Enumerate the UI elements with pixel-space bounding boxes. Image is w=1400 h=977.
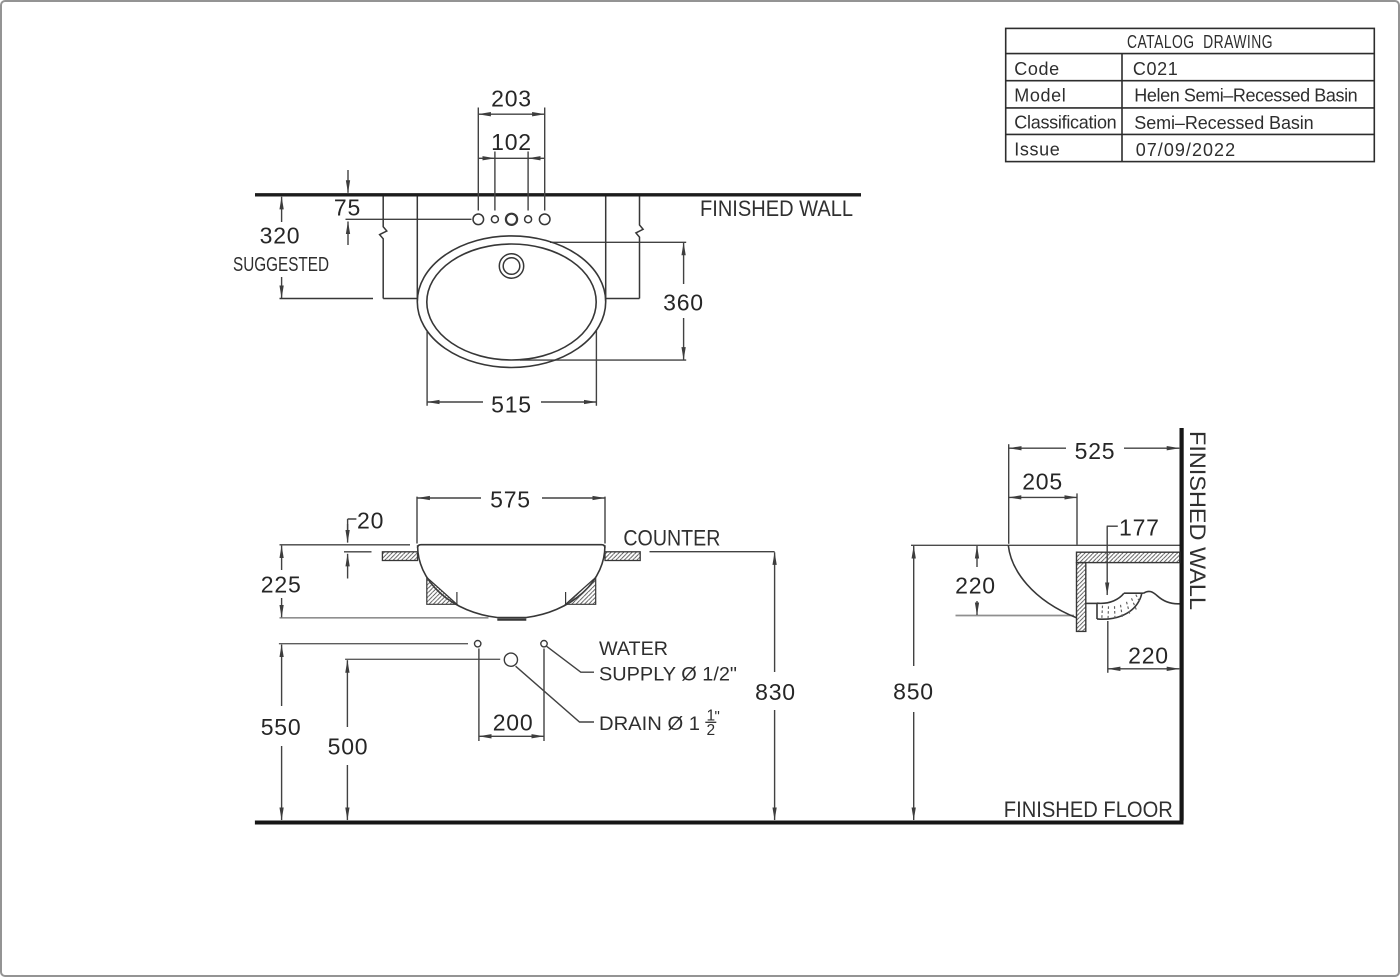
faucet hole 5 — [539, 214, 550, 225]
faucet holes reference line — [346, 218, 472, 220]
basin rim top line (front) — [418, 545, 605, 548]
svg-text:COUNTER: COUNTER — [623, 526, 720, 551]
overflow/faucet boss outer circle (plan) — [499, 254, 523, 278]
basin opening edge left (plan) — [416, 196, 418, 301]
svg-text:FINISHED WALL: FINISHED WALL — [1185, 431, 1210, 610]
svg-text:WATER: WATER — [599, 639, 668, 660]
drain boss under bowl (front) — [497, 618, 526, 620]
dim 200 line — [479, 735, 544, 737]
dim 220 bottom extension line — [1107, 621, 1109, 673]
svg-text:220: 220 — [955, 573, 996, 599]
reference line under bowl (front, grey) — [280, 617, 489, 619]
title block column line — [1121, 54, 1123, 162]
fixing clamp left (front) — [427, 578, 457, 605]
basin rim reference line (side) — [911, 544, 1180, 546]
dim 203 extension lines — [478, 108, 544, 211]
svg-text:575: 575 — [490, 487, 531, 513]
svg-text:Model: Model — [1014, 86, 1066, 106]
dim 500 line — [346, 660, 348, 820]
faucet hole 1 — [473, 214, 484, 225]
overflow/faucet boss inner circle (plan) — [503, 258, 520, 275]
finished wall line (side) — [1179, 428, 1183, 821]
dim 102 line (outside arrows) — [479, 157, 544, 159]
dim 220 left line — [976, 546, 978, 615]
drain hole (front) — [504, 653, 517, 666]
counter hatched strip left (front) — [382, 552, 417, 561]
dim 360 extension lines — [520, 242, 686, 360]
svg-text:850: 850 — [893, 679, 934, 705]
svg-text:DRAIN Ø 1: DRAIN Ø 1 — [599, 714, 700, 735]
svg-text:360: 360 — [663, 290, 704, 316]
trap ledge line — [1086, 602, 1097, 604]
basin inner bowl ellipse (plan) — [427, 244, 596, 360]
dim 830 line — [774, 552, 776, 820]
drain reference line — [345, 658, 500, 660]
svg-text:830: 830 — [755, 679, 796, 705]
title block row lines — [1006, 54, 1375, 135]
faucet hole 3 (center) — [506, 214, 517, 225]
svg-text:CATALOG DRAWING: CATALOG DRAWING — [1127, 32, 1273, 52]
svg-text:177: 177 — [1119, 515, 1160, 541]
dim 320 line — [281, 197, 283, 298]
svg-text:75: 75 — [334, 195, 361, 221]
counter hatched strip right (front) — [605, 552, 640, 561]
trap top rim line — [1124, 592, 1144, 594]
counter hatched section (side) — [1077, 552, 1180, 562]
dim 850 line — [913, 546, 915, 820]
svg-text:550: 550 — [261, 714, 302, 740]
basin outline to wall (side, wavy) — [1143, 591, 1179, 603]
svg-text:SUPPLY Ø 1/2": SUPPLY Ø 1/2" — [599, 665, 737, 686]
basin opening edge right (plan) — [605, 196, 607, 301]
svg-text:FINISHED WALL: FINISHED WALL — [700, 196, 853, 221]
dim 177 leader — [1107, 526, 1118, 595]
dim 525 extension line — [1008, 444, 1010, 544]
faucet hole 4 — [525, 216, 532, 223]
finished wall line (plan) — [255, 193, 861, 196]
reference line under basin (side, grey) — [956, 615, 1075, 617]
dim 200 extension lines — [479, 649, 544, 742]
svg-text:200: 200 — [493, 709, 534, 735]
basin profile curve (side) — [1008, 545, 1076, 618]
svg-text:500: 500 — [328, 733, 369, 759]
basin outer rim ellipse (plan) — [417, 236, 605, 368]
water supply hole right (front) — [541, 641, 547, 647]
svg-text:Issue: Issue — [1014, 140, 1060, 160]
svg-text:Code: Code — [1014, 59, 1059, 79]
svg-text:20: 20 — [357, 508, 384, 534]
trap outer curve — [1097, 593, 1142, 619]
svg-text:102: 102 — [491, 129, 532, 155]
trap inner curve — [1097, 593, 1124, 603]
basin back hatched bar (side) — [1077, 563, 1086, 632]
drain leader — [516, 666, 594, 722]
svg-text:Helen Semi–Recessed Basin: Helen Semi–Recessed Basin — [1134, 86, 1358, 106]
water supply hole left (front) — [475, 641, 481, 647]
svg-text:C021: C021 — [1133, 59, 1178, 79]
water supply reference line — [279, 643, 468, 645]
dim 75 arrows — [347, 170, 349, 245]
dim 515 line — [427, 401, 596, 403]
dim 525 line — [1009, 447, 1179, 449]
dim 550 line — [281, 645, 283, 820]
faucet hole 2 — [491, 216, 498, 223]
trap texture hatch — [1102, 595, 1140, 620]
basin bowl outline (front) — [418, 545, 605, 617]
fixing clamp right inner edge — [565, 592, 567, 604]
dim 102 extension lines — [495, 152, 528, 211]
svg-text:FINISHED FLOOR: FINISHED FLOOR — [1004, 797, 1173, 822]
svg-text:220: 220 — [1128, 643, 1169, 669]
dim 575 extension lines — [417, 497, 605, 544]
dim 220 bottom line — [1108, 668, 1180, 670]
dim 205 line — [1009, 496, 1077, 498]
counter front edge segments (plan) — [280, 298, 640, 300]
svg-text:225: 225 — [261, 571, 302, 597]
dim 515 extension lines — [427, 331, 596, 406]
svg-text:525: 525 — [1075, 438, 1116, 464]
svg-text:515: 515 — [491, 392, 532, 418]
dim 830 reference line — [650, 551, 775, 553]
floor line — [255, 821, 1184, 825]
fixing clamp right (front) — [566, 578, 596, 605]
dim 203 line — [478, 113, 544, 115]
dim 575 line — [417, 497, 605, 499]
dim 205 extension line — [1076, 493, 1078, 544]
dim 225 line — [281, 546, 283, 618]
fixing clamp left inner edge — [456, 592, 458, 604]
svg-text:": " — [715, 708, 720, 725]
svg-text:320: 320 — [260, 223, 301, 249]
water supply leader — [547, 646, 594, 672]
svg-text:SUGGESTED: SUGGESTED — [233, 253, 329, 276]
counter break line left (plan) — [380, 196, 387, 298]
drain fraction 1/2 stacked — [705, 708, 720, 739]
title block outer frame — [1006, 28, 1375, 161]
svg-text:203: 203 — [491, 86, 532, 112]
svg-text:07/09/2022: 07/09/2022 — [1136, 140, 1236, 160]
dim 20 bracket and arrows — [344, 519, 372, 579]
trap inlet cap — [1096, 603, 1098, 619]
counter break line right (plan) — [636, 196, 643, 298]
dim 360 line — [683, 243, 685, 360]
svg-text:Semi–Recessed Basin: Semi–Recessed Basin — [1134, 113, 1314, 133]
rim reference line to the left (front) — [280, 544, 411, 546]
svg-text:Classification: Classification — [1014, 112, 1117, 132]
svg-text:205: 205 — [1022, 469, 1063, 495]
